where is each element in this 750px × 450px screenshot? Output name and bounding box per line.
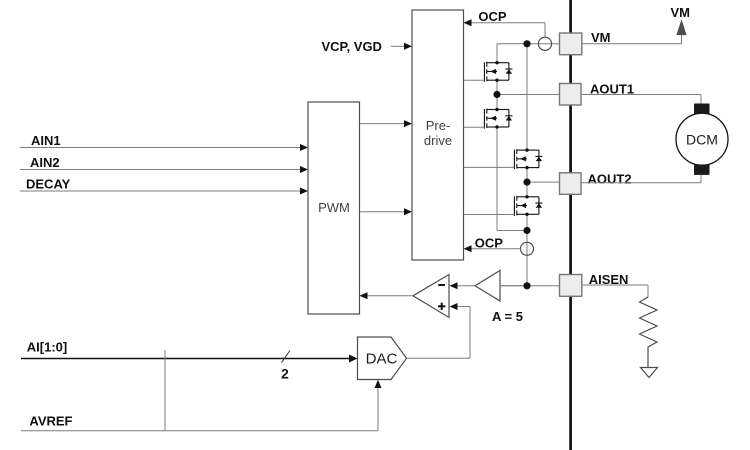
svg-text:AIN1: AIN1 xyxy=(31,133,61,148)
svg-text:DCM: DCM xyxy=(686,131,718,147)
pin AOUT2 xyxy=(560,172,632,195)
wire branch stub xyxy=(164,350,166,431)
wire AOUT2 to pin xyxy=(527,181,560,183)
VCP, VGD input xyxy=(322,39,413,54)
wire DECAY input line xyxy=(20,177,308,195)
pin AISEN xyxy=(560,272,629,296)
VM supply arrow xyxy=(671,5,691,35)
OCP top signal to Pre-drive xyxy=(464,9,546,37)
wire PWM to Pre-drive upper xyxy=(360,120,413,127)
wire comparator output to PWM xyxy=(360,292,414,299)
wire AIN1 input line xyxy=(20,133,308,151)
node AOUT1 junction dot xyxy=(493,91,500,98)
amplifier A=5 xyxy=(475,271,523,325)
device boundary thick line xyxy=(569,0,572,450)
motor DCM xyxy=(676,113,728,165)
pin VM xyxy=(560,30,611,55)
block Pre-drive U2 xyxy=(412,10,464,260)
pin AOUT1 xyxy=(560,81,635,105)
svg-text:OCP: OCP xyxy=(475,235,504,250)
svg-text:VCP, VGD: VCP, VGD xyxy=(322,39,382,54)
motor terminal top xyxy=(694,104,710,114)
svg-text:PWM: PWM xyxy=(318,200,350,215)
svg-text:AOUT2: AOUT2 xyxy=(588,172,632,187)
transistor Q3 high-side AOUT2 xyxy=(514,148,542,169)
wire Q2 gate lead xyxy=(464,126,485,128)
comparator U3 xyxy=(413,275,449,318)
wire left half-bridge column (x=497) xyxy=(497,44,527,231)
svg-text:DAC: DAC xyxy=(366,351,398,368)
wire AVREF xyxy=(21,380,382,431)
bus width slash xyxy=(282,351,291,363)
wire AI[1:0] bus xyxy=(21,340,358,363)
svg-text:AI[1:0]: AI[1:0] xyxy=(27,340,67,355)
wire gain stage to comparator minus input xyxy=(450,282,476,289)
OCP bottom signal to Pre-drive xyxy=(464,235,521,252)
resistor sense xyxy=(640,297,658,368)
current sense circle top xyxy=(538,37,551,50)
wire Q3 gate lead xyxy=(464,166,515,168)
DAC U4 xyxy=(358,337,407,380)
transistor Q2 low-side AOUT1 xyxy=(484,108,512,129)
motor terminal bottom xyxy=(694,165,710,175)
wire right half-bridge column (x=527) xyxy=(526,44,528,286)
svg-text:AVREF: AVREF xyxy=(29,414,72,429)
transistor Q4 low-side AOUT2 xyxy=(514,195,542,216)
wire AISEN pin to sense resistor xyxy=(582,285,648,297)
wire AOUT2 pin to motor xyxy=(581,175,701,183)
wire VM rail xyxy=(497,43,560,45)
svg-text:drive: drive xyxy=(424,133,452,148)
wire AOUT1 pin to motor xyxy=(582,95,701,104)
svg-text:A = 5: A = 5 xyxy=(492,309,523,324)
node AOUT2 junction dot xyxy=(523,179,530,186)
junction dot low-side sources node xyxy=(523,227,530,234)
svg-text:VM: VM xyxy=(591,30,611,45)
wire PWM to Pre-drive lower xyxy=(360,208,413,215)
wire amplifier input from AISEN node xyxy=(500,285,523,287)
junction dot VM rail node xyxy=(523,40,530,47)
node AISEN junction dot xyxy=(523,282,530,289)
wire Q1 gate lead xyxy=(464,79,485,81)
wire AISEN node to pin xyxy=(500,285,560,287)
current sense circle bottom xyxy=(521,242,534,255)
wire Q4 gate lead xyxy=(464,214,515,216)
ground xyxy=(641,368,658,378)
svg-text:VM: VM xyxy=(671,5,691,20)
svg-text:Pre-: Pre- xyxy=(426,118,451,133)
wire AIN2 input line xyxy=(20,155,308,173)
wire DAC output to comparator plus input xyxy=(407,303,471,358)
wire AOUT1 to pin xyxy=(497,94,560,96)
transistor Q1 high-side AOUT1 xyxy=(484,61,512,82)
svg-text:OCP: OCP xyxy=(478,9,507,24)
wire VM pin to supply arrow xyxy=(582,35,682,44)
svg-text:2: 2 xyxy=(281,366,289,382)
svg-text:DECAY: DECAY xyxy=(26,177,71,192)
block PWM xyxy=(308,102,360,314)
svg-text:AIN2: AIN2 xyxy=(30,155,60,170)
